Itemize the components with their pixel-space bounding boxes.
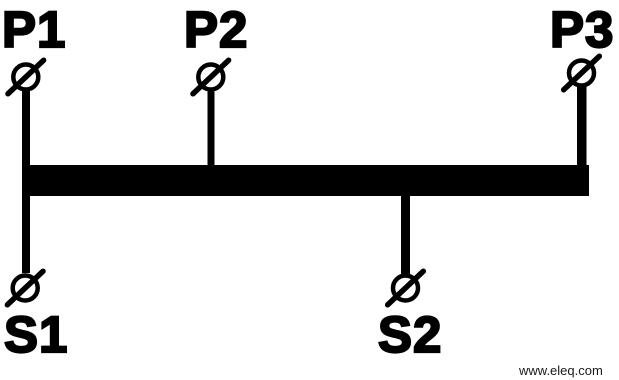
terminal S1 (7, 271, 43, 305)
terminal P2 (193, 60, 229, 94)
wire S2 vertical (401, 194, 410, 274)
terminal S2 (388, 271, 424, 305)
wire P3 vertical (577, 85, 587, 167)
label S1 (4, 309, 68, 360)
terminal P1 (8, 60, 44, 94)
busbar (primary conductor) (22, 165, 589, 196)
terminal P3 (564, 56, 600, 90)
wire P1-S1 vertical (22, 88, 30, 273)
label P3 (550, 4, 614, 55)
label P2 (184, 4, 248, 55)
website url (519, 363, 603, 378)
wire P2 vertical (208, 89, 215, 167)
label P1 (2, 4, 66, 55)
label S2 (378, 309, 442, 360)
